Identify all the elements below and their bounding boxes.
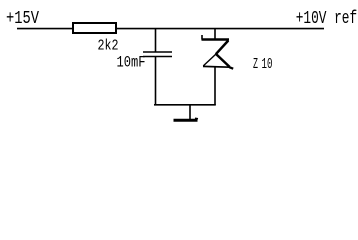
wire zener Z10 top lead: [214, 28, 216, 39]
zener diode Z10: [202, 35, 234, 69]
wire zener Z10 bottom lead to bottom rail: [214, 67, 216, 105]
wire capacitor 10mF top lead: [155, 28, 157, 52]
svg-text:+15V: +15V: [6, 9, 39, 29]
capacitor 10mF: [143, 52, 172, 57]
net +10V ref: [296, 9, 358, 29]
wire +15V input to resistor 2k2 left terminal: [17, 28, 73, 30]
wire ground stem: [189, 105, 191, 120]
ground: [174, 118, 199, 120]
resistor 2k2 value label: [98, 37, 119, 54]
svg-text:2k2: 2k2: [98, 37, 119, 54]
resistor 2k2: [73, 23, 116, 33]
wire bottom rail: [154, 104, 216, 106]
svg-text:10mF: 10mF: [117, 53, 146, 71]
svg-text:10: 10: [262, 56, 273, 73]
net +15V: [6, 9, 39, 29]
svg-text:Z: Z: [253, 56, 258, 73]
wire capacitor 10mF bottom lead to bottom rail: [155, 57, 157, 106]
svg-text:+10V ref: +10V ref: [296, 9, 358, 29]
zener diode Z10 value label: [253, 56, 273, 73]
wire resistor 2k2 to +10V ref output: [116, 28, 324, 30]
capacitor 10mF value label: [117, 53, 146, 71]
